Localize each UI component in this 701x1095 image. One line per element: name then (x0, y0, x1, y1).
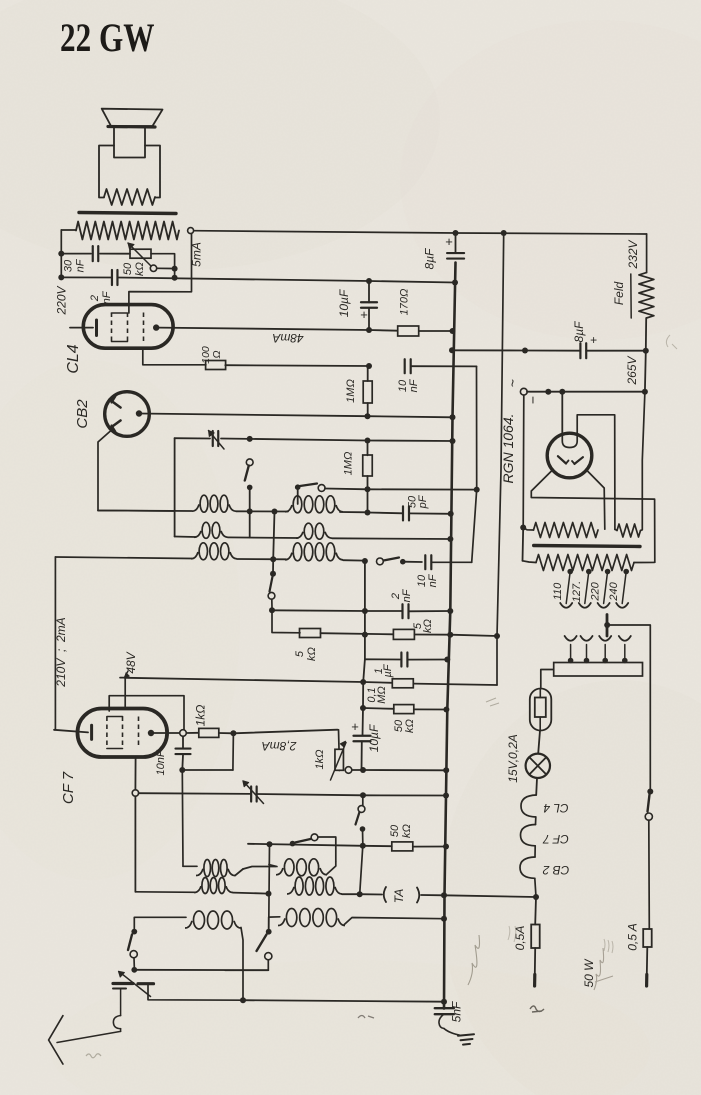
AC terminal circle (520, 388, 527, 395)
node (452, 280, 458, 286)
coil R3a (185, 921, 192, 928)
screen terminal circle (180, 730, 187, 737)
svg-text:50: 50 (389, 824, 401, 837)
wire Feld top (646, 234, 648, 273)
RGN anode ticks (558, 456, 566, 463)
pot arrow (128, 243, 151, 266)
tube CL4 envelope (83, 305, 173, 349)
node (604, 622, 610, 628)
node (449, 347, 455, 353)
tap 220 (605, 569, 611, 575)
socket arc (599, 636, 611, 641)
node (444, 657, 450, 663)
svg-text:RGN 1064.: RGN 1064. (500, 413, 516, 483)
svg-text:5nF: 5nF (450, 1001, 464, 1022)
svg-text:nF: nF (401, 588, 413, 602)
wire 0.1M line (125, 678, 363, 682)
wire frame left vertical (174, 438, 176, 536)
tap 127. (586, 569, 592, 575)
wire row A (98, 510, 192, 513)
svg-text:1MΩ: 1MΩ (343, 452, 355, 476)
CL4 anode node (153, 324, 159, 330)
switch S1 (246, 459, 253, 466)
wire primary left to left rail (61, 229, 76, 231)
svg-text:kΩ: kΩ (404, 719, 416, 733)
node (357, 891, 363, 897)
tuning capacitor (113, 982, 133, 985)
switch S4 (270, 577, 273, 592)
node (643, 348, 649, 354)
node (240, 997, 246, 1003)
filament winding (617, 524, 641, 537)
wire top HT rail (194, 231, 647, 234)
node (365, 510, 371, 516)
CF7 grids dashed (106, 717, 108, 749)
resistor 1k (199, 728, 219, 737)
resistor 1M (a) (367, 366, 369, 381)
node (366, 363, 372, 369)
svg-text:22 GW: 22 GW (60, 15, 155, 60)
svg-text:kΩ: kΩ (401, 824, 413, 838)
svg-text:50 W: 50 W (582, 958, 596, 988)
capacitor 10uF (CL4 grid) (368, 281, 370, 303)
node (58, 251, 64, 257)
wire row3 left (134, 917, 186, 931)
mains pin left (533, 975, 536, 987)
svg-text:5: 5 (294, 650, 306, 657)
node (362, 558, 368, 564)
node (360, 792, 366, 798)
node (441, 999, 447, 1005)
wire CB2 anode line (139, 414, 368, 417)
output transformer primary winding (76, 222, 179, 240)
svg-text:pF: pF (417, 494, 429, 509)
mains pin (606, 615, 609, 637)
capacitor 5nF (435, 1007, 454, 1009)
wire primary left up (522, 528, 525, 561)
wire S2 stub to coil (297, 487, 299, 504)
svg-text:kΩ: kΩ (422, 619, 434, 633)
svg-text:nF: nF (101, 290, 113, 304)
coil A1 (192, 504, 199, 511)
wire pot right (151, 254, 175, 278)
node (447, 536, 453, 542)
svg-text:+: + (351, 719, 359, 734)
svg-text:220V: 220V (55, 285, 69, 315)
node (441, 892, 447, 898)
wire row2 (135, 891, 196, 894)
wire g1 CL4 to output terminal (129, 234, 192, 314)
capacitor 30nF (92, 246, 94, 261)
wire 2nF line (61, 276, 112, 278)
resistor 5k (b) (393, 629, 414, 639)
voltage selector block (554, 663, 643, 677)
wire row C / 210V line (55, 557, 192, 559)
speaker voice coil (114, 127, 145, 158)
node (360, 767, 366, 773)
filament left leg (531, 470, 655, 563)
svg-text:CB2: CB2 (74, 399, 91, 429)
svg-text:kΩ: kΩ (306, 647, 318, 661)
wire V183 down (181, 770, 183, 793)
node (267, 841, 273, 847)
wire V365 (364, 561, 366, 659)
svg-text:CF 7: CF 7 (60, 771, 77, 804)
wire row2 tap down (268, 894, 270, 915)
capacitor 8uF mid (455, 233, 457, 253)
node (360, 679, 366, 685)
node (270, 556, 276, 562)
wire (367, 489, 369, 512)
wire V365 682-708 (362, 682, 364, 708)
svg-text:CL 4: CL 4 (543, 801, 568, 815)
node (365, 438, 371, 444)
main chassis rail (444, 263, 456, 1009)
CB2 electrodes (110, 400, 121, 408)
svg-text:170Ω: 170Ω (399, 289, 411, 316)
svg-text:CB 2: CB 2 (542, 863, 569, 877)
node (443, 844, 449, 850)
node (545, 389, 551, 395)
switch S3 (377, 558, 384, 565)
tube CF7 envelope (78, 709, 168, 758)
svg-text:220: 220 (590, 581, 602, 601)
node (520, 525, 526, 531)
svg-text:2,8mA: 2,8mA (262, 739, 298, 753)
svg-text:~: ~ (505, 379, 521, 387)
HT winding (534, 523, 599, 538)
coil R3b (278, 918, 285, 925)
node (266, 891, 272, 897)
coil C1 (191, 552, 198, 559)
node (360, 705, 366, 711)
wire fuse to lamp (538, 731, 540, 754)
wire CF7 grid down (134, 757, 136, 790)
wire S1 down (249, 487, 251, 537)
CF7 strap (107, 716, 123, 718)
coil R2b (287, 887, 294, 894)
svg-text:15V,0,2A: 15V,0,2A (506, 734, 520, 782)
wire 770 line (182, 769, 233, 771)
wire row B (175, 536, 196, 539)
socket arc (619, 636, 631, 641)
output transformer secondary winding (104, 189, 155, 205)
tube top notch (561, 434, 563, 443)
svg-text:CF 7: CF 7 (542, 832, 569, 846)
socket arc (565, 636, 577, 641)
coil R2a (194, 886, 201, 892)
loudspeaker (102, 109, 163, 126)
node (247, 508, 253, 514)
trimmer capacitor (212, 431, 214, 446)
primary winding (536, 555, 634, 571)
svg-text:48mA: 48mA (272, 331, 303, 345)
node (179, 767, 185, 773)
wire S8 S7 join (134, 969, 268, 971)
node (360, 843, 366, 849)
fuse holder (530, 689, 552, 731)
svg-text:110: 110 (552, 582, 564, 600)
pot switch circle (150, 265, 156, 271)
svg-text:MΩ: MΩ (376, 686, 388, 704)
svg-text:kΩ: kΩ (134, 262, 146, 276)
node (58, 274, 64, 280)
svg-text:48V: 48V (124, 651, 138, 673)
node (450, 438, 456, 444)
vertical A lower corner (496, 636, 498, 685)
capacitor 50pF (368, 512, 404, 515)
svg-text:+: + (445, 234, 453, 249)
wire heater feed (444, 895, 536, 897)
svg-text:+: + (360, 307, 368, 322)
node (441, 916, 447, 922)
tap 240 (623, 569, 629, 575)
node (365, 486, 371, 492)
wire 634 line (272, 610, 300, 633)
wire S7 up (269, 917, 280, 932)
node (453, 230, 459, 236)
trimmer padder (250, 787, 252, 802)
svg-text:240: 240 (608, 581, 620, 601)
switch S8 (131, 929, 137, 935)
switch S2 (295, 484, 301, 490)
svg-text:nF: nF (75, 258, 87, 272)
wire AC left vertical (522, 395, 525, 527)
node (270, 571, 276, 577)
node (272, 509, 278, 515)
svg-text:8µF: 8µF (572, 321, 586, 343)
coil C2 (285, 553, 292, 560)
crossing circle (132, 790, 138, 796)
node (447, 608, 453, 614)
node (362, 632, 368, 638)
node (172, 266, 178, 272)
node (443, 707, 449, 713)
wire CL4 anode line (159, 328, 369, 330)
pot 1k arrow (331, 743, 347, 781)
CL4 cathode (70, 327, 93, 329)
node (559, 389, 565, 395)
wire 30nF line (61, 253, 91, 255)
node (501, 230, 507, 236)
node (494, 633, 500, 639)
coil R1a (183, 865, 197, 867)
svg-text:50: 50 (122, 262, 134, 275)
output transformer secondary box (99, 146, 114, 198)
antenna symbol (49, 1016, 63, 1064)
wire selector to fuse (541, 670, 554, 688)
capacitor 8uF b (579, 343, 581, 358)
fuse 0,5A (531, 925, 540, 949)
socket arc (581, 636, 593, 641)
wire 350 line (452, 349, 525, 351)
svg-text:−: − (525, 396, 541, 404)
svg-text:2: 2 (89, 295, 101, 302)
node (447, 632, 453, 638)
wire to wave switch (343, 559, 365, 561)
wire CL4 bottom to 100 Ohm (143, 349, 206, 365)
wire to ground (444, 1029, 461, 1036)
pot 1k (338, 730, 340, 732)
wire band tap vertical (273, 512, 274, 560)
wire g1 top (120, 678, 125, 709)
ground symbol (458, 1034, 474, 1036)
svg-text:TA: TA (392, 889, 406, 903)
wire 210V vertical (54, 557, 55, 730)
tube RGN1064 (547, 433, 592, 478)
capacitor 10nF top (404, 359, 406, 373)
node (474, 487, 480, 493)
wire screen rect (109, 696, 184, 730)
wire 281 line (369, 281, 455, 283)
coil B1 (194, 531, 201, 537)
transformer core bar b (534, 546, 640, 547)
wire 845 line (248, 844, 363, 846)
lamp 15V 0,2A (526, 754, 550, 778)
svg-text:232V: 232V (626, 239, 640, 269)
switch S5 (362, 798, 364, 806)
wire frame top (trimmer line) (175, 437, 210, 439)
resistor 170 Ohm (398, 326, 419, 336)
coil A2 (285, 505, 292, 512)
svg-text:30: 30 (63, 259, 75, 272)
mains switch (647, 789, 653, 795)
tuning arrow (120, 972, 151, 997)
node (365, 413, 371, 419)
mains pin right (645, 975, 648, 987)
svg-text:Feld: Feld (612, 282, 626, 306)
node (443, 767, 449, 773)
svg-text:nF: nF (427, 573, 439, 587)
node (230, 730, 236, 736)
capacitor 10nF b (424, 555, 426, 569)
anode path (577, 415, 615, 530)
svg-text:210V ; 2mA: 210V ; 2mA (54, 617, 68, 687)
node (247, 436, 253, 442)
node (642, 389, 648, 395)
wire 392 line (527, 391, 645, 393)
fuse 0,5A right (643, 929, 652, 947)
heater chain bumps (521, 795, 536, 817)
svg-text:µF: µF (382, 663, 394, 677)
svg-text:127.: 127. (571, 581, 583, 602)
tube CB2 (105, 392, 150, 437)
svg-text:0,5 A: 0,5 A (626, 923, 640, 951)
capacitor 2nF (111, 270, 113, 285)
CF7 anode node (148, 730, 154, 736)
node (172, 275, 178, 281)
svg-text:Ω: Ω (211, 351, 223, 359)
svg-text:8µF: 8µF (423, 248, 437, 270)
node (522, 348, 528, 354)
transformer core bar (79, 213, 176, 214)
coil R1b (269, 865, 277, 867)
node (366, 327, 372, 333)
capacitor 10uF mid (362, 708, 365, 736)
wire Feld to 392 (644, 351, 647, 392)
filament right leg (586, 470, 605, 530)
wire vertical A (497, 233, 504, 636)
resistor 0.1M (363, 681, 392, 684)
wire S6 drop (268, 844, 271, 932)
CL4 grids dashed (111, 313, 113, 342)
wire S2 line y=489 (325, 488, 368, 491)
svg-text:265V: 265V (625, 355, 639, 385)
wire heater to fuse (534, 897, 537, 925)
svg-text:1kΩ: 1kΩ (314, 750, 326, 770)
wire gang right (148, 985, 243, 1000)
capacitor 1uF (365, 658, 400, 660)
wire lamp down (535, 778, 538, 795)
node (450, 328, 456, 334)
wire left rail (220V line) (60, 230, 62, 277)
coil B2 (296, 532, 303, 538)
wire fil winding right (641, 392, 645, 531)
switch S6 (290, 841, 296, 847)
svg-text:10nF: 10nF (155, 749, 167, 775)
svg-text:nF: nF (408, 378, 420, 392)
wire V365 bottom (360, 846, 363, 894)
resistor Feld zigzag (639, 273, 654, 318)
resistor 1M (b) (367, 441, 369, 456)
TA jack (360, 893, 382, 895)
CF7 cathode (54, 730, 88, 733)
padder arrow (244, 782, 264, 804)
terminal circle at primary right (188, 228, 194, 234)
node (362, 608, 368, 614)
resistor 50k b (363, 845, 392, 847)
svg-text:10µF: 10µF (337, 289, 351, 317)
svg-text:10µF: 10µF (367, 724, 381, 752)
node (450, 414, 456, 420)
svg-text:1kΩ: 1kΩ (194, 705, 208, 727)
capacitor 2nF b (401, 604, 403, 618)
node (269, 607, 275, 613)
wire R3a right drop (241, 928, 243, 1001)
svg-text:1MΩ: 1MΩ (345, 379, 357, 403)
resistor 100 Ohm (206, 361, 226, 370)
node (448, 511, 454, 517)
CB2 grid wire down-left (98, 431, 175, 512)
wire filament center (561, 392, 563, 434)
wire AVC line 610 (272, 609, 365, 612)
resistor 5k (a) (300, 629, 321, 638)
node (533, 894, 539, 900)
wire padder line (139, 792, 250, 795)
CL4 internal strap (112, 312, 128, 314)
wire mains to switch column (607, 625, 650, 790)
node (443, 793, 449, 799)
tap 110 (567, 569, 573, 575)
potentiometer 50k (130, 249, 151, 258)
capacitor 10nF (CF7) (182, 736, 184, 747)
wire CF7 anode (154, 732, 180, 734)
wire to vertical B (432, 561, 472, 563)
svg-text:+: + (590, 333, 597, 347)
pencil scribbles (468, 935, 480, 985)
wire antenna coupling (120, 989, 122, 1016)
trimmer arrow (209, 431, 225, 450)
svg-text:CL4: CL4 (65, 344, 82, 373)
node (366, 278, 372, 284)
resistor 50k a (363, 707, 394, 710)
switch S7 (266, 929, 272, 935)
wiper circle (345, 767, 352, 774)
